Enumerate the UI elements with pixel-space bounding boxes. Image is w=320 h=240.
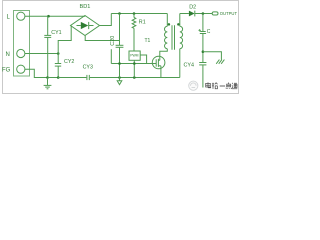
wire L row: [25, 15, 85, 17]
terminal N pin circle: [17, 49, 25, 57]
wire N row: [25, 53, 58, 55]
watermark text tong: [232, 83, 238, 89]
node junction output: [202, 12, 205, 15]
border frame: [3, 1, 239, 94]
capacitor CY4: [199, 63, 206, 88]
port OUTPUT pill: [212, 12, 218, 15]
node junction rail/bulk cap: [118, 12, 121, 15]
wire to chassis ground: [203, 52, 222, 60]
watermark text dian: [206, 82, 211, 87]
bridge rectifier BD1: [71, 16, 100, 36]
transistor Q1: [152, 56, 165, 69]
wire bottom rail to CY3: [58, 77, 86, 79]
node junction N/CY2: [57, 52, 60, 55]
svg-text:CY2: CY2: [64, 59, 74, 65]
wire bridge bottom to bulk cap: [85, 36, 119, 41]
svg-text:L: L: [7, 15, 11, 21]
node junction L/CY1: [47, 15, 50, 18]
wire DC+ rail: [111, 13, 167, 15]
wire secondary to D2: [180, 13, 189, 15]
svg-text:D2: D2: [189, 5, 196, 11]
wire source to rail: [160, 66, 162, 78]
svg-text:R1: R1: [139, 20, 146, 26]
node junction FG/ground: [46, 76, 49, 79]
svg-text:CY4: CY4: [184, 63, 195, 69]
watermark icon: [189, 81, 198, 90]
wire secondary top riser: [179, 14, 181, 27]
capacitor C polarity plus: [198, 29, 201, 32]
wire output down: [202, 14, 204, 32]
capacitor C20 bulk: [116, 14, 124, 78]
svg-text:PWM: PWM: [130, 54, 138, 58]
svg-text:OUTPUT: OUTPUT: [220, 11, 238, 16]
svg-text:C: C: [207, 29, 211, 35]
wire bottom rail center: [90, 77, 180, 79]
wire U1 bottom pin: [133, 60, 135, 77]
terminal FG pin circle: [17, 65, 25, 73]
primary ground arrow: [117, 78, 122, 85]
wire gate row: [111, 63, 156, 65]
wire secondary bottom riser: [179, 49, 181, 78]
node junction gate/bulk cap: [118, 62, 121, 65]
capacitor C: [200, 32, 206, 34]
svg-text:BD1: BD1: [80, 4, 91, 10]
node junction secondary ground: [202, 50, 205, 53]
svg-text:CY1: CY1: [51, 30, 61, 36]
capacitor CY1: [44, 16, 51, 77]
op-amp U1 PWM box: [129, 51, 140, 60]
node junction bulk cap/rail: [118, 76, 121, 79]
node junction CY2/rail: [57, 76, 60, 79]
node junction rail/R1: [133, 12, 136, 15]
wire gate stub riser: [110, 49, 112, 63]
wire bottom rail left: [48, 77, 59, 79]
svg-text:N: N: [6, 52, 10, 58]
node junction gate/U1 pin: [133, 62, 136, 65]
svg-text:FG: FG: [2, 68, 11, 74]
watermark text yi: [220, 85, 225, 87]
wire drain to transformer: [160, 49, 168, 61]
resistor R1: [132, 14, 136, 52]
transformer T1: [165, 14, 183, 50]
wire U1 output jog: [140, 55, 146, 64]
watermark text lu: [212, 83, 218, 89]
node junction U1 pin/rail: [133, 76, 136, 79]
wire bridge right to DC rail: [100, 14, 112, 26]
capacitor CY2: [55, 54, 61, 78]
wire N to bridge left: [58, 26, 71, 54]
wire D2 to output: [195, 13, 212, 15]
earth ground: [44, 78, 52, 89]
svg-text:T1: T1: [145, 38, 151, 44]
diode D2: [189, 11, 195, 17]
svg-text:CY3: CY3: [83, 64, 93, 70]
terminal L pin circle: [17, 12, 25, 20]
wire C to CY4: [202, 34, 204, 63]
svg-text:C20: C20: [110, 36, 116, 46]
wire FG row: [25, 69, 48, 77]
capacitor CY3: [87, 75, 89, 80]
chassis ground: [216, 60, 224, 64]
connector J1 box: [14, 11, 30, 77]
watermark text dian2: [226, 83, 232, 89]
